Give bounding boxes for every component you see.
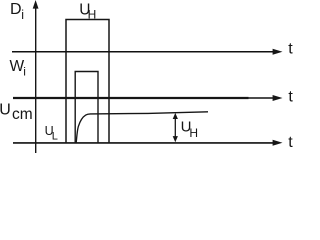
svg-text:H: H [88,7,97,21]
svg-text:i: i [23,64,26,78]
U_cm charging curve [76,112,208,143]
dimension double-arrow U_H [174,117,176,139]
svg-text:H: H [189,126,198,140]
arrowhead axis 1 [273,49,283,55]
axis 1 (D_i time axis) wire [12,51,274,53]
arrowhead vertical axis top [33,0,39,9]
svg-text:t: t [288,134,293,151]
svg-text:L: L [52,131,58,143]
svg-text:cm: cm [12,106,33,123]
axis 2 (U_cm level, thick segment) [13,97,249,99]
axis 3 (bottom time axis) wire [13,142,274,144]
W_i pulse (small pulse, edges run down to axis 3) [75,72,98,144]
D_i pulse rectangle (tall pulse, edges run down to axis 3) [66,20,109,144]
svg-text:t: t [288,40,293,57]
svg-text:t: t [288,88,293,105]
axis 2 thin continuation [249,97,275,99]
arrowhead axis 3 [273,140,283,146]
svg-text:D: D [10,1,22,18]
svg-text:U: U [0,101,11,118]
arrowhead axis 2 [273,95,283,101]
svg-text:i: i [21,8,24,22]
axis D_i vertical (main vertical axis) [35,6,37,153]
